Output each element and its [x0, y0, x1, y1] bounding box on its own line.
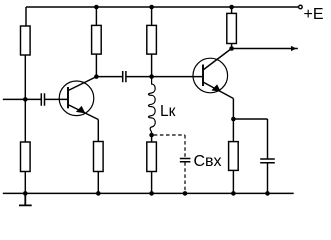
svg-text:+E: +E: [304, 6, 324, 23]
resistor R7: [21, 142, 31, 172]
wire output: [232, 48, 298, 50]
wire R1 bottom to node A to R7 top: [24, 55, 26, 142]
resistor R1: [21, 26, 31, 55]
junction rail-R4: [229, 5, 234, 10]
wire rail to R2: [95, 7, 97, 25]
junction R8-ground: [96, 191, 101, 196]
top supply rail +E: [26, 6, 298, 8]
junction rail-R3: [149, 5, 154, 10]
resistor R8 (Q1 emitter): [94, 142, 104, 172]
capacitor C2 (coupling): [123, 71, 126, 82]
wire R5 to ground rail: [232, 170, 234, 193]
transistor Q2: [193, 49, 233, 99]
junction R5-ground: [231, 191, 236, 196]
wire R3 to node C: [151, 54, 153, 77]
terminal +E: [299, 5, 303, 9]
junction C3-ground: [265, 191, 270, 196]
wire rail to R4: [231, 7, 233, 13]
ground: [19, 193, 32, 205]
junction rail-ground symbol: [23, 191, 28, 196]
junction rail-R2: [94, 5, 99, 10]
wire C2 to node C: [126, 76, 152, 78]
dashed wire node D to Cvx: [154, 134, 185, 136]
node B (Q1 collector): [94, 74, 99, 79]
wire node B to C2: [96, 76, 122, 78]
junction Cvx-ground: [183, 191, 188, 196]
wire C3 bottom lead: [267, 163, 269, 193]
wire C3 top lead: [267, 119, 269, 159]
dashed wire Cvx bottom lead: [184, 162, 186, 193]
capacitor C1: [41, 93, 44, 106]
wire Q2 emitter down: [232, 99, 234, 120]
dashed wire Cvx top lead: [184, 135, 186, 158]
resistor R3 (Q2 base bias): [147, 25, 157, 54]
resistor R4 (Q2 collector): [227, 13, 237, 43]
node E (Q2 emitter): [231, 117, 236, 122]
svg-text:Свх: Свх: [194, 153, 222, 170]
resistor R2 (Q1 collector): [92, 25, 102, 54]
label +E: [304, 6, 324, 23]
junction R6-ground: [149, 191, 154, 196]
label Cvx: [194, 153, 222, 170]
wire node C to Q2 base: [152, 76, 203, 78]
wire R4 to node F: [231, 44, 233, 49]
wire R6 to ground rail: [151, 172, 153, 194]
wire input terminal: [3, 98, 41, 100]
svg-text:Lк: Lк: [160, 103, 176, 120]
wire node E to C3: [233, 118, 267, 120]
resistor R6: [147, 142, 157, 172]
output arrow: [291, 46, 296, 51]
transistor Q1: [59, 77, 98, 120]
inductor Lk: [148, 77, 155, 135]
wire Q1 emitter down: [97, 120, 99, 142]
bottom ground rail: [3, 192, 294, 194]
capacitor Cvx: [180, 159, 191, 162]
node D (Lk bottom / R6 top): [149, 133, 154, 138]
wire C1 to Q1 base: [45, 98, 69, 100]
wire R2 to collector node: [95, 54, 97, 77]
wire R7 bottom to ground rail: [24, 172, 26, 194]
node A (input junction): [23, 97, 28, 102]
node F (output node): [229, 46, 234, 51]
wire R8 to ground rail: [97, 172, 99, 194]
label Lk: [160, 103, 176, 120]
wire node D to R6: [151, 135, 153, 142]
resistor R5 (Q2 emitter): [229, 142, 239, 171]
wire rail to R1 top: [25, 7, 27, 26]
wire node E to R5: [232, 119, 234, 142]
capacitor C3 (emitter bypass): [260, 159, 275, 163]
wire rail to R3: [151, 7, 153, 25]
node C (Q2 base node): [149, 74, 154, 79]
